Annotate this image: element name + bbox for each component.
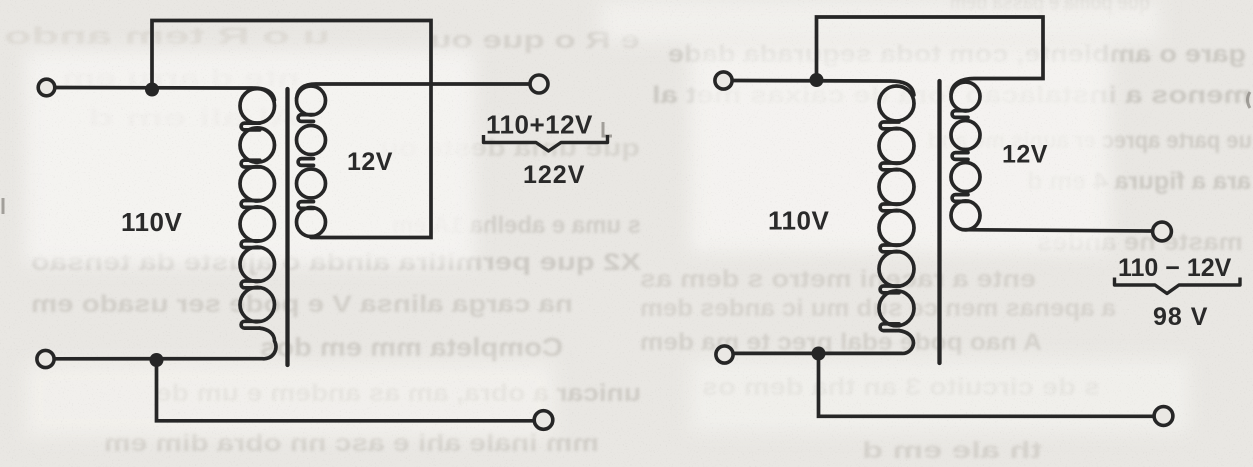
svg-text:110V: 110V	[121, 207, 182, 237]
svg-text:122V: 122V	[523, 161, 585, 189]
svg-text:110V: 110V	[768, 206, 829, 236]
svg-text:110 − 12V: 110 − 12V	[1118, 254, 1232, 282]
svg-text:110+12V: 110+12V	[486, 110, 593, 140]
svg-text:98 V: 98 V	[1153, 303, 1208, 331]
svg-text:12V: 12V	[347, 148, 393, 176]
svg-text:12V: 12V	[1002, 141, 1048, 169]
